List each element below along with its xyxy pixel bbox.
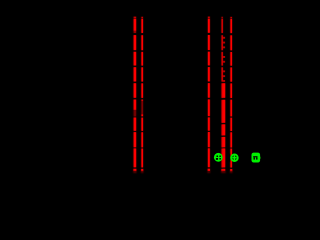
- laser beam L5 dashed core: [230, 17, 232, 171]
- green mine sprite S2 ring: [231, 154, 238, 161]
- beam L1 halo: [133, 17, 136, 171]
- beam L4 halo: [221, 17, 223, 171]
- beam L4 rung texture zone: [223, 37, 225, 82]
- beam L3 halo: [207, 17, 210, 171]
- black background: [0, 0, 291, 208]
- beam L4 thick slab dashes: [223, 83, 226, 171]
- sprite S2 inner plus: [232, 155, 236, 160]
- green mine sprite S1 disc: [214, 153, 223, 162]
- dim patch on L2 mid: [141, 101, 144, 115]
- dim patch on L1 upper: [133, 31, 137, 33]
- laser beam L3 dashed core: [208, 17, 210, 171]
- sprite S1 black window holes: [216, 156, 221, 160]
- beam L4 slab halo: [223, 83, 226, 171]
- sprite S3 right nub: [259, 157, 261, 159]
- laser beam L4 dashed core: [221, 17, 223, 171]
- green mine sprite S3 body: [252, 153, 261, 163]
- beam L2 halo: [141, 17, 144, 171]
- beam L5 halo: [230, 17, 233, 171]
- laser beam L2 dashed core: [141, 17, 143, 171]
- laser beam L1 dashed core: [133, 17, 136, 171]
- beam bottom fade glows: [133, 171, 232, 173]
- dim patch on L1 mid: [133, 110, 137, 116]
- sprite S3 black pattern: [253, 156, 257, 159]
